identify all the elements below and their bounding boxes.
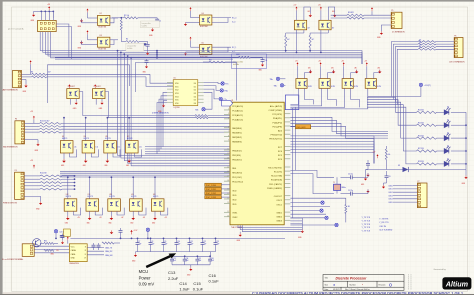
svg-text:+3V: +3V [77, 217, 80, 219]
svg-text:C15: C15 [193, 281, 201, 286]
svg-text:+3V: +3V [164, 217, 167, 219]
svg-text:CAN_EN: CAN_EN [105, 254, 113, 257]
svg-text:.1uF: .1uF [173, 260, 176, 262]
svg-text:PB0(SCK): PB0(SCK) [232, 150, 242, 152]
svg-text:GND: GND [108, 222, 111, 224]
ground MCU bottom-left [239, 232, 241, 233]
svg-text:PA0(WE0): PA0(WE0) [232, 127, 242, 130]
power VCC above J1 [48, 6, 50, 10]
connector P4 PWM INPUTS [15, 172, 25, 199]
port PA3 [219, 97, 222, 100]
capacitor C24 low pass [262, 57, 264, 59]
svg-text:.1uF: .1uF [198, 260, 201, 262]
svg-text:U11: U11 [127, 136, 130, 138]
white port pentagon at MCU top-left [222, 101, 233, 106]
svg-text:D4: D4 [194, 96, 196, 98]
svg-text:+5V: +5V [373, 151, 376, 153]
svg-text:4k7: 4k7 [312, 39, 315, 41]
svg-text:RX (CTS) RXD: RX (CTS) RXD [268, 167, 282, 169]
optocoupler U4 [200, 15, 212, 25]
svg-text:R10-R13 4k7: R10-R13 4k7 [40, 120, 50, 122]
note box 2 [126, 43, 144, 51]
resistor R25 LED row [417, 124, 437, 126]
wire rows MCU right lower [290, 197, 345, 199]
capacitor C8 [150, 238, 152, 242]
wire MCU right lower rows [290, 205, 330, 207]
svg-text:D5: D5 [447, 133, 449, 135]
svg-text:U16: U16 [153, 194, 156, 196]
svg-text:GND: GND [61, 165, 64, 167]
title block dotted separators [407, 275, 409, 291]
ground mark U19 [355, 70, 358, 74]
port 12V mid rail [146, 228, 149, 231]
svg-text:UART EXPANSION: UART EXPANSION [2, 89, 18, 92]
svg-text:0.1uF: 0.1uF [209, 279, 220, 284]
ground under P3 [36, 143, 39, 146]
power VCC above U18 [320, 62, 322, 66]
bottom file path band [3, 292, 250, 294]
svg-text:EL817 SM: EL817 SM [200, 26, 208, 28]
crystal Y1 [334, 184, 341, 190]
svg-text:LED0: LED0 [389, 185, 393, 187]
svg-text:D7: D7 [447, 158, 449, 160]
svg-text:VD5: VD5 [175, 100, 179, 102]
svg-text:MCU: MCU [139, 269, 149, 274]
ground mark U20 [378, 70, 381, 74]
svg-text:CANL: CANL [71, 253, 76, 256]
wire LED D7 to common [451, 163, 466, 165]
svg-text:U4: U4 [202, 13, 204, 15]
svg-text:EL817S: EL817S [66, 196, 71, 198]
svg-text:PGED (CANRX): PGED (CANRX) [267, 187, 282, 190]
capacitor C16 [209, 256, 211, 259]
capacitor C2 [156, 18, 158, 19]
svg-text:TMc: TMc [195, 109, 199, 111]
capacitor C15 [196, 256, 198, 259]
capacitor C12 [202, 238, 204, 242]
svg-text:2.2uF: 2.2uF [168, 276, 179, 281]
svg-text:PA1(WE1): PA1(WE1) [232, 132, 242, 135]
svg-text:+5V: +5V [318, 60, 321, 62]
wire port +12V down-left [368, 87, 421, 97]
svg-text:PGD_HDR: PGD_HDR [297, 127, 306, 129]
svg-text:P6: P6 [454, 35, 456, 37]
svg-text:PB1(SDI): PB1(SDI) [232, 155, 241, 157]
wire U17 bottom to MCU [290, 88, 298, 104]
svg-text:SN65HVD230: SN65HVD230 [69, 263, 79, 265]
svg-text:R6: R6 [31, 72, 33, 74]
resistor R8 row [195, 115, 208, 117]
svg-text:U3: U3 [100, 35, 102, 37]
wire U6 output right [79, 92, 195, 116]
svg-text:Y_TX RTS: Y_TX RTS [379, 219, 389, 221]
svg-text:GND: GND [361, 184, 364, 186]
svg-text:RC2(TX): RC2(TX) [274, 172, 282, 174]
svg-text:EL817S: EL817S [131, 196, 136, 198]
resistor R32 top [102, 242, 114, 244]
svg-text:U7 EL817: U7 EL817 [94, 86, 101, 88]
LED D3 [444, 108, 450, 115]
ground bottom mid [110, 230, 114, 234]
svg-text:R28 330: R28 330 [418, 161, 424, 163]
wire cap bank row2 bottom rail [172, 264, 210, 266]
svg-text:*: * [362, 283, 363, 287]
svg-text:R30: R30 [44, 241, 47, 243]
wire MCU right to crystal block [290, 170, 334, 177]
svg-text:PDA(JPL): PDA(JPL) [273, 117, 282, 120]
power VCC above U7 [94, 84, 96, 88]
power VCC above U22 [320, 7, 322, 11]
svg-text:GND2: GND2 [276, 217, 283, 219]
wire U7 down to GND [95, 99, 97, 105]
wire MCU bottom-left VSS drops [238, 225, 302, 227]
ground LED common [464, 176, 467, 179]
svg-text:D6: D6 [194, 103, 196, 105]
svg-text:Y_TX TCK: Y_TX TCK [362, 224, 371, 226]
wires U5 right to ports [204, 82, 221, 83]
svg-text:C8: C8 [151, 241, 153, 243]
svg-text:OSC2: OSC2 [276, 200, 282, 202]
svg-text:12: 12 [227, 153, 229, 155]
power VCC for U5 [189, 37, 191, 41]
svg-text:R24 330: R24 330 [418, 110, 424, 112]
capacitor C14 [184, 256, 186, 259]
svg-text:Discrete Processor: Discrete Processor [336, 277, 368, 281]
ground right of C4 [366, 173, 369, 176]
svg-text:U5: U5 [174, 78, 176, 80]
optocoupler U7 [93, 89, 105, 99]
svg-text:CAN_TX: CAN_TX [105, 247, 113, 250]
svg-text:U9: U9 [84, 136, 86, 138]
ground under C6 [382, 185, 385, 188]
IC U5 level shifter [173, 80, 198, 106]
svg-text:C10: C10 [177, 241, 180, 243]
ground under U5 left [164, 100, 168, 102]
svg-text:1.5k: 1.5k [139, 147, 142, 149]
svg-text:C7: C7 [138, 241, 140, 243]
svg-text:0.09 mV: 0.09 mV [139, 282, 155, 287]
svg-text:GND: GND [126, 165, 129, 167]
svg-text:21: 21 [227, 193, 229, 195]
svg-text:D8: D8 [398, 165, 400, 167]
wire U5 outputs [212, 46, 231, 48]
svg-text:+5V: +5V [318, 5, 321, 7]
svg-text:RC_1: RC_1 [232, 47, 236, 49]
capacitor C5 crystal bottom [341, 193, 351, 195]
svg-text:PD1(OSC): PD1(OSC) [232, 177, 242, 179]
svg-text:VSS2: VSS2 [232, 217, 238, 219]
svg-text:VD2: VD2 [175, 90, 179, 92]
svg-text:10k: 10k [419, 45, 421, 47]
svg-text:22: 22 [227, 198, 229, 200]
svg-text:4k7: 4k7 [287, 39, 290, 41]
ground left of U5 [184, 52, 187, 55]
svg-text:PGC_CON1: PGC_CON1 [206, 189, 216, 191]
wire U9 down to ground [85, 153, 87, 159]
svg-text:fc=3kHz: fc=3kHz [142, 25, 148, 27]
svg-text:VD0: VD0 [175, 83, 179, 85]
wires terminal to CAN IC [34, 245, 69, 247]
svg-text:SL-xx SCREW TERMINAL: SL-xx SCREW TERMINAL [2, 258, 23, 261]
svg-text:8MHz: 8MHz [342, 187, 346, 189]
svg-text:EL817S: EL817S [153, 196, 158, 198]
power VCC above U20 [366, 62, 368, 66]
resistor R3 vertical [120, 18, 122, 20]
optocoupler U6 [67, 89, 79, 99]
svg-text:PC2(ADC1): PC2(ADC1) [232, 109, 243, 112]
power VCC above U17 [296, 62, 298, 66]
white port box right of MCU top [285, 95, 298, 110]
capacitor C25 on bus [146, 59, 148, 61]
svg-text:GND: GND [65, 222, 68, 224]
svg-text:C24: C24 [265, 60, 268, 62]
svg-text:CLK TCK/SWD: CLK TCK/SWD [379, 229, 393, 231]
svg-text:D0: D0 [194, 83, 196, 85]
svg-text:LED3: LED3 [389, 195, 393, 197]
svg-text:10k: 10k [419, 47, 421, 49]
svg-text:D2: D2 [194, 90, 196, 92]
ground under P5 [381, 25, 391, 31]
svg-text:GND: GND [104, 165, 107, 167]
svg-text:10k: 10k [419, 42, 421, 44]
capacitor C13 [215, 238, 217, 242]
svg-text:+3V: +3V [99, 217, 102, 219]
svg-text:VDD: VDD [232, 204, 237, 206]
wire bus mid-left to MCU pins [145, 146, 230, 148]
wire loop U20 [374, 70, 380, 79]
resistor rows from P4 [24, 175, 40, 177]
svg-text:EL817S: EL817S [88, 196, 93, 198]
svg-text:C5 22p: C5 22p [348, 190, 353, 192]
svg-text:LED: LED [377, 67, 380, 69]
svg-text:EL817S: EL817S [84, 138, 89, 140]
wire U19 bottom to MCU [290, 88, 344, 107]
svg-text:PGC_CON2: PGC_CON2 [206, 193, 216, 195]
resistor R4 lower [121, 41, 126, 43]
svg-text:EL817S: EL817S [109, 196, 114, 198]
wire loop U19 [351, 70, 357, 79]
optocoupler U8 [60, 141, 73, 153]
svg-text:COMP (VREF): COMP (VREF) [269, 110, 283, 112]
resistor rows from P3 to MCU [25, 122, 40, 124]
capacitor C9 [163, 238, 165, 242]
svg-text:U15: U15 [131, 194, 134, 196]
svg-text:D3: D3 [447, 107, 449, 109]
svg-text:.1uF: .1uF [138, 243, 141, 245]
power VCC above U20 [67, 237, 69, 241]
svg-text:4 WIRE SENSOR IN: 4 WIRE SENSOR IN [152, 113, 169, 115]
svg-text:VDD: VDD [232, 199, 237, 201]
LED D6 [444, 146, 450, 153]
port lower 1 [321, 201, 324, 204]
svg-text:.1uF: .1uF [186, 260, 189, 262]
diode D2 [143, 43, 146, 46]
svg-text:PA2(WE2): PA2(WE2) [232, 136, 242, 139]
optocoupler U12 [64, 199, 77, 211]
power VCC for U3 [86, 30, 88, 34]
svg-text:C11: C11 [190, 241, 193, 243]
ground mark U18 [332, 70, 335, 74]
optocoupler U13 [86, 199, 99, 211]
svg-text:U10: U10 [105, 136, 108, 138]
svg-text:1.5k: 1.5k [117, 147, 120, 149]
diode D8 on wire [366, 169, 403, 171]
svg-text:OSC IN: OSC IN [379, 226, 386, 228]
optocoupler U18 [319, 79, 330, 89]
wire port row 3 [290, 217, 324, 219]
capacitor pair above terminal [92, 245, 96, 247]
wire cap bank row2 rail [210, 252, 212, 257]
power VCC above U6 [68, 84, 70, 88]
svg-text:CAN_RX: CAN_RX [105, 250, 113, 253]
svg-text:EL817S: EL817S [62, 138, 67, 140]
svg-text:TMc: TMc [270, 79, 274, 81]
wire U21 bottoms to bus [296, 30, 298, 53]
ground cap bank row2 [190, 265, 192, 268]
svg-text:PC1(J/PK): PC1(J/PK) [272, 114, 282, 116]
optocoupler U11 [126, 141, 139, 153]
svg-text:RE1(INT0): RE1(INT0) [232, 173, 242, 175]
wire J1 top pins to junction row [40, 11, 42, 20]
wire U12 top leg [67, 177, 69, 199]
port PA4 [202, 108, 205, 111]
capacitor C6 right [386, 171, 388, 176]
svg-text:File: C:\Users\..\Discrete.Sch: File: C:\Users\..\Discrete.SchDoc [345, 288, 370, 291]
ground left of U4 [184, 22, 187, 25]
svg-text:GND1: GND1 [276, 213, 283, 215]
wire U10 down to ground [106, 153, 108, 159]
svg-text:LED4: LED4 [389, 199, 393, 201]
svg-text:4k7: 4k7 [332, 27, 334, 29]
wire U10 output leg [113, 149, 120, 157]
resistor rows to P6 with stair feed [392, 42, 419, 97]
ground low pass [261, 63, 264, 66]
ground MCU right [301, 230, 304, 233]
wire U4 outputs [212, 17, 231, 19]
svg-text:C14: C14 [179, 281, 187, 286]
svg-text:R34: R34 [209, 59, 212, 61]
connector P5 [391, 12, 402, 28]
svg-text:10k: 10k [388, 154, 391, 156]
wire U18 bottom to MCU [290, 88, 321, 106]
connector P2 UART EXPANSION [13, 70, 22, 87]
svg-text:20: 20 [227, 189, 229, 191]
svg-text:15: 15 [227, 166, 229, 168]
svg-text:17: 17 [227, 175, 229, 177]
svg-text:+12V(T): +12V(T) [424, 85, 431, 87]
wire loop U17 [305, 70, 311, 79]
svg-text:4k7: 4k7 [308, 27, 310, 29]
wire MCU right rows to LED feed corners [290, 117, 388, 131]
wire MCU right long bundle [290, 136, 374, 164]
resistor R30 [44, 242, 54, 244]
port 12V bottom [54, 230, 57, 233]
svg-text:Size: Size [325, 284, 329, 286]
svg-text:GND: GND [71, 257, 76, 259]
svg-text:U5: U5 [202, 42, 204, 44]
ground under P2 [21, 79, 26, 81]
port lower 3 [325, 216, 328, 219]
svg-text:D5: D5 [194, 100, 196, 102]
svg-text:12V-1: 12V-1 [60, 232, 64, 234]
wire U14 bottom legs [110, 211, 112, 216]
wire U8 down to ground [63, 153, 65, 159]
wire U11 up to bus [128, 118, 130, 141]
wires U5 right bundle down to MCU top [204, 81, 228, 83]
svg-text:C13: C13 [168, 270, 176, 275]
svg-text:18: 18 [227, 180, 229, 182]
svg-text:Generated by:: Generated by: [434, 268, 447, 271]
svg-text:Y_RX CTS: Y_RX CTS [379, 222, 389, 224]
port lower 2 [320, 209, 323, 212]
svg-text:PRGD(TKD): PRGD(TKD) [271, 135, 283, 137]
svg-text:LED: LED [331, 67, 334, 69]
optocoupler U20 [365, 79, 376, 89]
svg-text:+5V: +5V [364, 60, 367, 62]
wire LED D6 to common [451, 150, 466, 152]
wire U15 top leg [132, 177, 134, 199]
svg-text:+5V: +5V [294, 5, 297, 7]
wire U15 bottom legs [132, 211, 134, 216]
ground under C25 [145, 65, 148, 68]
wire U12 bottom legs [67, 211, 69, 216]
svg-text:C13: C13 [173, 258, 176, 260]
svg-text:1.5k: 1.5k [74, 147, 77, 149]
svg-text:U2: U2 [100, 13, 102, 15]
svg-text:PC3(ADC2): PC3(ADC2) [232, 114, 243, 117]
wire U10 up to bus [106, 118, 108, 141]
wire loop right (to U5 area) [136, 63, 237, 101]
svg-text:C13: C13 [216, 241, 219, 243]
svg-text:C9: C9 [164, 241, 166, 243]
svg-text:Y1: Y1 [333, 182, 335, 184]
capacitor C20 above U20 [60, 236, 64, 238]
svg-text:pin # IO console A: pin # IO console A [8, 27, 24, 30]
transistor Q3 circle [33, 239, 41, 247]
svg-text:R14-R18: R14-R18 [40, 173, 46, 175]
ground under C23 [61, 241, 64, 244]
LED D7 [444, 159, 450, 166]
LED D4 [444, 120, 450, 127]
svg-text:In_0: In_0 [232, 21, 235, 23]
net label orange right of MCU [296, 125, 311, 129]
svg-text:+3V: +3V [121, 217, 124, 219]
svg-text:GND: GND [87, 222, 90, 224]
wire U11 output leg [135, 149, 142, 157]
port PA1 [221, 82, 224, 85]
wire bundle J1 bottom joining long bus [40, 32, 157, 51]
svg-text:.1uF: .1uF [190, 243, 193, 245]
svg-text:C6: C6 [389, 176, 391, 178]
svg-text:CLKOUT: CLKOUT [274, 196, 283, 198]
svg-text:TMx: TMx [224, 91, 228, 93]
capacitor C13 [171, 256, 173, 259]
optocoupler U3 [98, 37, 110, 47]
capacitor C22 right [367, 160, 369, 163]
resistor R33 vertical right [385, 146, 387, 149]
svg-text:DC EXPANSION: DC EXPANSION [392, 30, 405, 33]
wire U16 bottom legs [154, 211, 156, 216]
svg-text:C12: C12 [203, 241, 206, 243]
svg-text:PDQ(JPE): PDQ(JPE) [272, 126, 282, 128]
capacitor C10 [176, 238, 178, 242]
wire bus top horizontal y50-58 [157, 51, 362, 64]
wire bus LED feed verticals [367, 97, 417, 112]
wire U8 up to bus [63, 118, 65, 141]
svg-text:LED2: LED2 [389, 192, 393, 194]
resistor R28 LED row [417, 163, 437, 165]
svg-text:D6: D6 [447, 145, 449, 147]
